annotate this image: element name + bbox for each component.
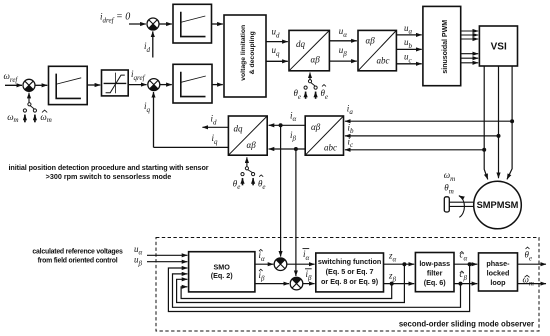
node i_alpha label [290,110,297,123]
svg-text:iq: iq [212,133,219,146]
svg-text:(Eq. 5 or Eq. 7: (Eq. 5 or Eq. 7 [326,267,374,276]
text: initial position note line 1 [9,163,209,172]
motor SMPMSM [474,181,522,229]
wire VSI phase c down [484,66,488,179]
svg-text:iβ: iβ [259,270,266,283]
position sensor [444,197,449,212]
svg-text:ωm: ωm [7,112,18,124]
svg-text:phase-: phase- [486,259,510,268]
svg-text:uq: uq [272,45,281,58]
wire S2 to q-axis PI [160,84,172,86]
wire i_a tap [345,120,512,122]
block alpha-beta to abc (currents) [305,116,343,155]
block saturation limiter [102,70,129,96]
summer A (alpha current error) [274,258,287,271]
node i_alpha-hat label [259,249,266,262]
svg-text:iqref: iqref [131,69,146,82]
svg-text:ub: ub [404,37,413,50]
svg-text:θe: θe [233,178,241,191]
block sinusoidal PWM [423,6,461,85]
svg-text:abc: abc [377,56,390,66]
node i_beta-bar label [305,269,312,282]
wire i_d rising into S3 [152,31,154,57]
svg-text:αβ: αβ [311,54,321,64]
wire d PI to voltage limitation [212,23,223,25]
svg-text:dq: dq [234,124,244,134]
svg-text:iα: iα [290,110,297,123]
rotation arrow on shaft [459,196,465,218]
svg-text:ia: ia [347,103,354,116]
summer S2 (q current error) [148,79,160,91]
node theta_e-hat output label [525,247,533,262]
node u_b label [404,37,413,50]
node u_a label [404,23,413,36]
wire feedback z_alpha loop [177,264,405,302]
junction dot z_alpha [402,262,406,266]
svg-text:SMPMSM: SMPMSM [477,200,519,210]
svg-text:θe: θe [525,250,533,263]
node i_beta-hat label [259,269,266,282]
node w_m label (sensor) [444,170,455,183]
svg-text:ud: ud [272,27,281,40]
shaft to position sensor [449,202,474,206]
block d-axis PI controller [173,4,212,43]
block phase-locked loop [479,253,518,291]
wire VSI phase b down [498,66,500,178]
svg-text:locked: locked [487,269,510,278]
svg-text:αβ: αβ [366,35,376,45]
svg-text:& decoupling: & decoupling [249,31,256,74]
node u_beta label [339,45,348,58]
wire c_alpha-hat to PLL [454,263,477,265]
junction dot i_alpha tap [279,123,283,127]
summer S1 (speed error) [23,79,35,91]
svg-text:ωm: ωm [444,170,455,183]
wire summer A to switching function [287,263,315,265]
wire SMO i_alpha-hat to summer A [255,263,274,265]
svg-text:idref = 0: idref = 0 [100,12,130,25]
svg-text:id: id [144,41,151,54]
svg-text:θe: θe [321,88,329,101]
wire w_m-hat output [518,283,547,285]
node c_beta-hat label [460,269,468,282]
node theta_e hat label (current transform) [258,175,266,191]
svg-text:uc: uc [404,52,413,65]
svg-text:iq: iq [144,101,151,114]
node u_alpha label (SMO input) [134,244,143,257]
svg-text:iβ: iβ [290,130,297,143]
block speed PI controller [49,66,88,104]
wire i_alpha (abc box to dq box) [269,124,306,126]
wire i_beta drop to observer summer B [295,149,297,276]
wire S3 to d-axis PI [159,23,172,25]
wire u_c [396,63,421,65]
node i_dref = 0 label [100,12,130,25]
svg-text:(Eq. 6): (Eq. 6) [424,278,447,287]
node u_c label [404,52,413,65]
junction dot phase b tap [497,134,501,138]
node i_q label (below S2) [144,101,151,114]
wire u_alpha into SMO [147,254,187,256]
wire summer to speed PI [35,84,47,86]
svg-text:ic: ic [348,136,355,149]
node i_alpha-bar label [303,249,310,262]
node i_b label [348,122,355,135]
block dq to alpha-beta (voltages) [289,30,329,70]
switch theta under current dq block [241,157,255,185]
svg-text:zβ: zβ [388,271,397,284]
node z_alpha label [388,251,397,264]
svg-text:(Eq. 2): (Eq. 2) [211,271,234,280]
node i_qref label [131,69,146,82]
svg-text:dq: dq [296,39,306,49]
node theta_m label (sensor) [444,182,453,195]
svg-text:sinusoidal PWM: sinusoidal PWM [442,20,449,74]
node c_alpha-hat label [460,250,468,263]
node w_m-hat label (switch) [40,110,51,124]
node theta_e label (voltage transform) [294,88,302,101]
wire i_alpha drop to observer summer A [280,125,282,256]
svg-text:from field oriented control: from field oriented control [38,258,118,265]
wire u_alpha [329,40,356,42]
junction dot c_alpha-hat [468,262,472,266]
junction dot phase c tap [482,148,486,152]
svg-text:αβ: αβ [311,122,321,132]
wire feedback c_beta-hat loop [173,274,461,307]
wire w_ref into summer [5,84,22,86]
svg-text:id: id [211,114,218,127]
wire u_a [396,34,421,36]
text: calculated reference voltages line2 [38,258,118,265]
wire u_q [266,60,288,62]
svg-text:calculated reference voltages: calculated reference voltages [32,249,123,256]
wire q PI to voltage limitation [212,84,223,86]
wire i_q rising into S2 (from dq transform) [153,92,155,147]
junction dot c_beta-hat [459,282,463,286]
node i_a label [347,103,354,116]
svg-text:αβ: αβ [247,140,257,150]
svg-text:SMO: SMO [214,263,231,272]
node u_q label [272,45,281,58]
block dq to alpha-beta (currents) [228,116,267,155]
text: initial position note line 2 [46,172,172,181]
node w_m-hat output label [523,275,534,288]
svg-text:filter: filter [427,269,443,278]
block alpha-beta to abc (voltages) [358,30,396,70]
svg-text:zα: zα [388,251,397,264]
svg-text:ib: ib [348,122,355,135]
svg-text:>300 rpm switch to sensorless: >300 rpm switch to sensorless mode [46,172,172,181]
node i_d label (below S3) [144,41,151,54]
wire i_beta (abc box to dq box) [269,148,306,150]
svg-text:cβ: cβ [460,269,468,282]
svg-text:initial position detection pro: initial position detection procedure and… [9,163,209,172]
svg-text:voltage limitation: voltage limitation [240,25,247,81]
node i_beta label [290,130,297,143]
wire u_d [266,41,288,43]
wire i_b tap [345,135,499,137]
wire u_beta [329,60,356,62]
text: calculated reference voltages line1 [32,249,123,256]
wire saturation to summer S2 [128,84,146,86]
block voltage limitation & decoupling [224,15,266,97]
wire feedback c_alpha-hat loop (outermost) [168,264,469,311]
svg-text:ωm: ωm [40,112,51,124]
node u_alpha label [339,26,348,39]
svg-text:iβ: iβ [306,269,313,282]
node u_beta label (SMO input) [134,255,143,268]
wire feedback z_beta loop (innermost) [181,284,392,299]
node u_d label [272,27,281,40]
svg-text:cα: cα [460,250,468,263]
wire i_d out of dq box [202,126,228,128]
node theta_e label (current transform) [233,178,241,191]
svg-text:abc: abc [324,142,337,152]
node i_q label (dq output) [212,133,219,146]
block switching function [316,253,384,292]
dashed boundary second-order sliding mode observer [156,238,539,332]
switch speed feedback (wm / wm-hat) under summer S1 [23,93,36,123]
svg-text:or Eq. 8 or Eq. 9): or Eq. 8 or Eq. 9) [321,277,379,286]
wire i_c tap [345,149,484,151]
junction dot phase a tap [510,119,514,123]
svg-text:second-order sliding mode obse: second-order sliding mode observer [399,319,534,328]
wire SMO i_beta-hat to summer B [255,283,289,285]
wire i_dref into summer S3 [129,23,146,25]
junction dot i_beta tap [294,147,298,151]
wire u_beta into SMO [147,261,187,263]
svg-text:θe: θe [294,88,302,101]
svg-text:ua: ua [404,23,413,36]
node w_m label (switch) [7,112,18,124]
switch theta under voltage dq block [304,73,317,99]
svg-text:switching function: switching function [318,257,381,266]
node i_c label [348,136,355,149]
svg-text:loop: loop [490,278,506,287]
node w_ref label [4,71,19,84]
svg-text:ωref: ωref [4,71,19,84]
svg-text:low-pass: low-pass [419,259,450,268]
wire z_alpha to low-pass filter [384,263,415,265]
svg-text:iα: iα [259,250,266,263]
summer B (beta current error) [290,277,303,290]
wire speed PI to saturation [87,84,100,86]
block q-axis PI controller [173,64,212,103]
node i_d label (dq output) [211,114,218,127]
summer S3 (d current error) [147,18,159,30]
svg-text:iα: iα [303,249,310,262]
wire c_beta-hat to PLL [454,283,477,285]
svg-text:uβ: uβ [339,45,348,58]
wire summer B to switching function [303,283,315,285]
svg-text:uα: uα [339,26,348,39]
wire i_q out of dq box to summer S2 riser [154,146,229,148]
wire VSI phase a down [507,66,512,179]
svg-text:θm: θm [444,182,453,195]
wire z_beta to low-pass filter [384,283,415,285]
text second-order sliding mode observer [399,319,534,328]
block VSI [479,26,517,66]
wire theta_e-hat output [518,263,547,265]
node theta_e hat label (voltage transform) [321,85,329,101]
block SMO [189,252,255,292]
node z_beta label [388,271,397,284]
svg-text:VSI: VSI [491,42,507,53]
junction dot z_beta [390,282,394,286]
wire u_b [396,48,421,50]
wires PWM gate signals to VSI [461,31,479,63]
block low-pass filter [415,253,454,292]
svg-text:θe: θe [258,178,266,191]
